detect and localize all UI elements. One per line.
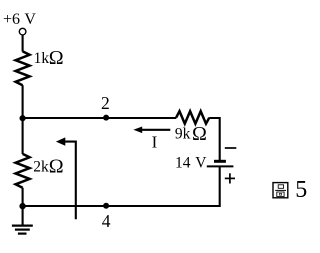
svg-text:14 V: 14 V bbox=[175, 154, 207, 171]
value label 1k ohm bbox=[34, 47, 64, 69]
current arrow I bbox=[133, 127, 170, 134]
svg-text:4: 4 bbox=[102, 211, 111, 231]
svg-text:5: 5 bbox=[295, 177, 307, 203]
wire from terminal to R1 bbox=[22, 35, 24, 52]
bent pointer arrow bbox=[56, 137, 76, 219]
junction dot left middle bbox=[20, 115, 26, 121]
resistor R1 1k ohm vertical bbox=[16, 51, 30, 85]
wire R3 to bottom junction bbox=[22, 188, 24, 206]
battery positive plate long bbox=[207, 165, 234, 167]
wire from R2 to right corner and down to battery bbox=[209, 118, 219, 160]
battery value label 14 V bbox=[175, 154, 207, 171]
svg-text:2k: 2k bbox=[33, 159, 49, 176]
svg-text:+6 V: +6 V bbox=[3, 11, 36, 28]
svg-text:2: 2 bbox=[101, 93, 110, 113]
value label 9k ohm bbox=[175, 123, 207, 145]
minus sign label bbox=[225, 147, 237, 149]
node 4 dot bbox=[103, 203, 109, 209]
node 4 label bbox=[102, 211, 111, 231]
resistor R2 9k ohm horizontal bbox=[176, 111, 209, 124]
svg-text:9k: 9k bbox=[175, 126, 191, 143]
battery negative plate short thick bbox=[214, 160, 226, 163]
node 2 dot bbox=[103, 115, 109, 121]
svg-text:Ω: Ω bbox=[192, 123, 207, 145]
wire middle horizontal bbox=[23, 117, 177, 119]
wire junction to ground bbox=[22, 206, 24, 225]
figure caption number 5 bbox=[295, 177, 307, 203]
current label I bbox=[152, 133, 158, 152]
wire R1 to node junction bbox=[22, 85, 24, 118]
svg-text:Ω: Ω bbox=[49, 47, 64, 69]
value label 2k ohm bbox=[33, 156, 63, 178]
wire left vertical middle to R3 bbox=[22, 118, 24, 154]
resistor R3 2k ohm vertical bbox=[16, 154, 30, 188]
terminal circle +6V bbox=[19, 28, 26, 35]
ground symbol bbox=[12, 226, 33, 234]
svg-text:Ω: Ω bbox=[49, 156, 64, 178]
node 2 label bbox=[101, 93, 110, 113]
junction dot bottom left bbox=[19, 203, 25, 209]
svg-text:1k: 1k bbox=[34, 50, 50, 67]
plus sign label bbox=[225, 173, 235, 183]
wire battery to bottom right corner bbox=[23, 167, 220, 206]
figure caption glyph 圖 bbox=[273, 183, 288, 198]
svg-text:I: I bbox=[152, 133, 158, 152]
node +6V supply label bbox=[3, 11, 36, 28]
